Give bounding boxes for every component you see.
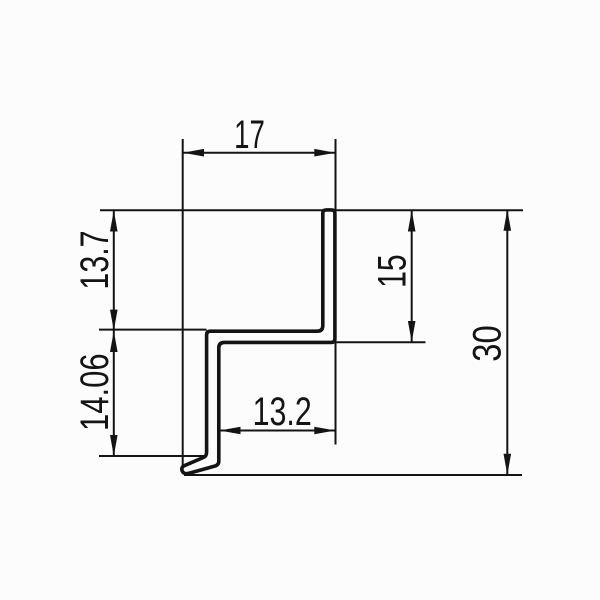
svg-text:14.06: 14.06 — [72, 353, 117, 431]
svg-text:17: 17 — [234, 113, 265, 157]
svg-text:13.2: 13.2 — [253, 389, 312, 434]
svg-text:15: 15 — [369, 254, 414, 288]
svg-text:30: 30 — [464, 325, 509, 361]
svg-text:13.7: 13.7 — [72, 230, 117, 289]
